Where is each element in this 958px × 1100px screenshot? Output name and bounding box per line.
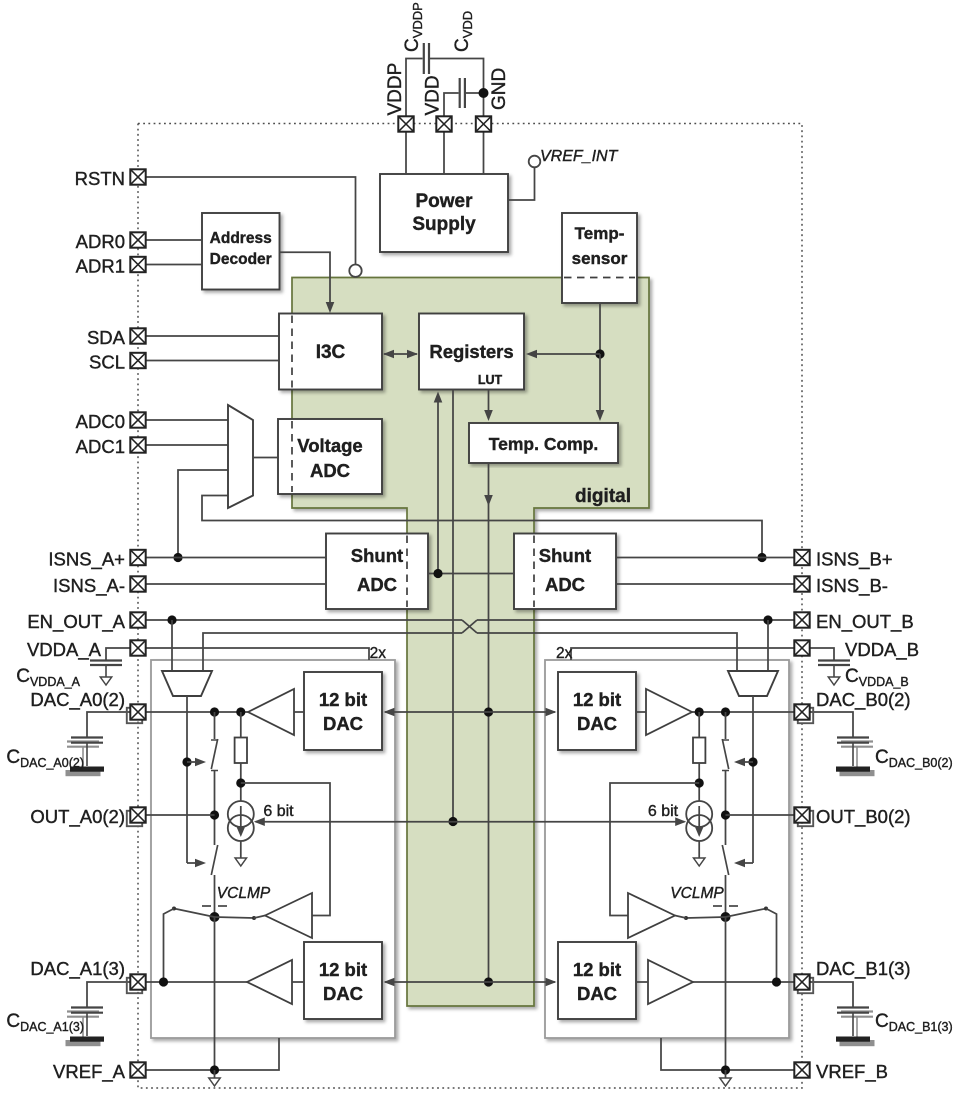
svg-text:EN_OUT_A: EN_OUT_A: [27, 611, 125, 633]
ground current source A: [235, 858, 246, 866]
wire mux tap ISNS_B+: [202, 496, 762, 558]
wire OUT_B0 line: [726, 814, 795, 816]
wire OUT_A0 line: [146, 814, 215, 816]
label SDA: [87, 327, 126, 348]
label 12 bit DAC A0: [319, 689, 367, 734]
wire EN_A to trap A: [171, 620, 173, 671]
junction DAC_A1 clamp: [159, 977, 168, 986]
wire SCL to I3C: [146, 360, 279, 362]
digital boundary dashes in Shunt ADC B: [533, 536, 535, 608]
wire EN crossover X: [462, 620, 477, 633]
label OUT_A0(2): [30, 806, 125, 828]
junction rail B: [748, 757, 757, 766]
node RSTN domain circle: [349, 265, 361, 277]
svg-text:VREF_B: VREF_B: [816, 1061, 888, 1083]
wire VDDA_A decoupling tap: [106, 648, 130, 660]
svg-text:OUT_B0(2): OUT_B0(2): [816, 806, 911, 828]
svg-text:Temp. Comp.: Temp. Comp.: [489, 434, 599, 454]
label Shunt ADC B: [539, 545, 591, 595]
label C_VDDP: [402, 2, 425, 52]
label DAC_B0(2): [816, 689, 911, 711]
junction GND/CVDD: [479, 88, 489, 98]
svg-text:12 bit: 12 bit: [319, 689, 367, 710]
label VREF_B: [816, 1061, 888, 1083]
label SCL: [89, 352, 125, 373]
svg-text:VDDA_B: VDDA_B: [845, 639, 919, 661]
label VCLMP A: [217, 885, 271, 902]
pad VREF_A: [130, 1062, 145, 1077]
svg-text:LUT: LUT: [478, 373, 503, 387]
wire VREF_A: [146, 1038, 279, 1070]
wire SDA to I3C: [146, 335, 279, 337]
junction DAC_A0 switch: [210, 707, 219, 716]
wire clamp to DAC1 A: [164, 909, 175, 983]
svg-text:Supply: Supply: [412, 214, 476, 235]
svg-text:Voltage: Voltage: [297, 435, 362, 456]
terminal VREF_INT: [529, 156, 541, 168]
junction res node A: [236, 778, 245, 787]
junction DAC0 bus: [484, 707, 493, 716]
wire buffer B0 to DAC box: [636, 711, 646, 713]
svg-text:ADR1: ADR1: [76, 256, 125, 277]
pad RSTN: [130, 169, 145, 184]
label ISNS_B+: [816, 549, 893, 571]
wire VDD pad to Power Supply: [443, 132, 445, 175]
wire chain top B: [725, 712, 727, 739]
svg-text:Registers: Registers: [429, 341, 513, 362]
wire ISNS_A+: [146, 557, 326, 559]
svg-text:DAC_A1(3): DAC_A1(3): [30, 958, 125, 980]
svg-text:SDA: SDA: [87, 327, 126, 348]
svg-text:I3C: I3C: [316, 342, 346, 363]
label VDDA_A: [27, 639, 102, 661]
label ADC1: [76, 436, 125, 457]
label LUT: [478, 373, 503, 387]
capacitor C_DAC_A0 echo: [66, 742, 100, 776]
svg-text:ISNS_B+: ISNS_B+: [816, 549, 893, 571]
svg-text:6 bit: 6 bit: [263, 803, 294, 820]
svg-text:12 bit: 12 bit: [573, 689, 621, 710]
Power Supply block: [380, 174, 508, 252]
label DAC_A0(2): [30, 689, 125, 711]
pad GND: [476, 116, 491, 131]
junction DAC_B0 switch: [721, 707, 730, 716]
wire mux tap ISNS_A+: [178, 470, 228, 558]
capacitor C_DAC_A1: [70, 1008, 104, 1042]
wire rail arrow 1 B: [734, 758, 753, 767]
wire VREF_INT to Power Supply: [508, 168, 535, 201]
wire res bottom A: [240, 763, 242, 802]
switch clamp pole B: [721, 912, 731, 922]
wire chain low A: [214, 875, 216, 917]
label 6 bit B: [648, 803, 679, 820]
svg-text:Power: Power: [415, 191, 473, 212]
pad ADC0: [130, 412, 145, 427]
label GND: [489, 68, 510, 110]
wire VDDP pad to Power Supply: [405, 132, 407, 175]
capacitor C_VDDA_A: [90, 661, 122, 678]
wire chain mid A: [214, 771, 216, 846]
junction DAC_B1 clamp: [772, 977, 781, 986]
svg-text:ADC0: ADC0: [76, 411, 125, 432]
switch blade 2 B: [722, 845, 728, 875]
wire chain top A: [214, 712, 216, 739]
wire VREF gnd stub A: [214, 1070, 216, 1078]
wire C_VDD to GND junction: [466, 92, 484, 94]
wire buffer A1 to DAC box: [292, 981, 304, 983]
junction ISNS_B+ tap: [757, 553, 766, 562]
label RSTN: [75, 168, 125, 189]
switch clamp pole A: [210, 912, 220, 922]
label ISNS_A+: [48, 549, 125, 571]
wire C_VDDP to GND net: [430, 59, 484, 117]
label Temp-sensor: [572, 224, 628, 268]
Address Decoder block: [202, 213, 280, 290]
label Temp. Comp.: [489, 434, 599, 454]
svg-text:ISNS_A+: ISNS_A+: [48, 549, 125, 571]
capacitor C_VDDP: [424, 43, 429, 74]
wire VREF gnd stub B: [725, 1070, 727, 1078]
12 bit DAC block A0: [304, 672, 382, 750]
svg-text:DAC_B1(3): DAC_B1(3): [816, 958, 911, 980]
svg-text:CVDDP: CVDDP: [402, 2, 425, 52]
wire chain bottom B: [725, 917, 727, 1070]
wire trap B rail: [752, 696, 754, 863]
svg-text:Decoder: Decoder: [210, 251, 272, 268]
pad ADR1: [130, 257, 145, 272]
output stage block B (2x): [545, 660, 789, 1038]
pad VDD: [436, 116, 451, 131]
wire I3C-Registers bidirectional: [383, 350, 418, 359]
label Power Supply: [412, 191, 476, 235]
switch clamp contact bars B: [713, 905, 738, 907]
pad DAC_B0(2): [794, 704, 813, 723]
junction rail A: [182, 757, 191, 766]
ground VREF_B: [720, 1078, 731, 1086]
label C_VDDA_B: [845, 666, 909, 689]
label VREF_A: [53, 1061, 126, 1083]
wire RSTN: [146, 177, 356, 264]
label C_DAC_B1: [875, 1011, 953, 1034]
wire temp to Temp. Comp.: [596, 354, 605, 421]
wire chain low B: [725, 875, 727, 917]
svg-text:DAC_A0(2): DAC_A0(2): [30, 689, 125, 711]
pad DAC_A1(3): [127, 974, 146, 993]
wire shunt ADC output row: [428, 573, 514, 575]
junction res node B: [695, 778, 704, 787]
svg-text:OUT_A0(2): OUT_A0(2): [30, 806, 125, 828]
label C_DAC_B0: [875, 747, 953, 770]
wire current source gnd lead B: [698, 841, 700, 858]
digital boundary dashes in Voltage ADC: [291, 421, 293, 492]
wire ISNS_A-: [146, 583, 326, 585]
wire GND pad to Power Supply: [483, 132, 485, 175]
svg-text:12 bit: 12 bit: [319, 959, 367, 980]
svg-text:ADC: ADC: [545, 574, 585, 595]
pad ISNS_A-: [130, 576, 145, 591]
ground C_VDDA_A: [100, 677, 111, 685]
wire DAC_B0 cap tap: [810, 712, 853, 738]
wire DAC_A0 cap tap: [87, 712, 130, 738]
label EN_OUT_B: [816, 611, 914, 633]
label VCLMP B: [670, 885, 724, 902]
mux ADC input selector: [228, 405, 253, 508]
svg-text:CDAC_A0(2): CDAC_A0(2): [6, 747, 84, 770]
svg-text:ADC: ADC: [310, 460, 350, 481]
chip boundary (dotted): [138, 124, 802, 1089]
svg-text:RSTN: RSTN: [75, 168, 125, 189]
wire DAC_A1 line: [146, 981, 247, 983]
label OUT_B0(2): [816, 806, 911, 828]
pad ADR0: [130, 232, 145, 247]
svg-text:DAC: DAC: [577, 713, 617, 734]
switch clamp blade left A: [172, 907, 215, 918]
12 bit DAC block A1: [304, 942, 382, 1019]
pad OUT_A0(2): [127, 807, 146, 826]
switch clamp blade right B: [684, 916, 726, 920]
label C_DAC_A0: [6, 747, 84, 770]
pad ISNS_B+: [794, 550, 809, 565]
buffer amp B1: [648, 960, 693, 1004]
svg-text:EN_OUT_B: EN_OUT_B: [816, 611, 914, 633]
label VDDA_B: [845, 639, 919, 661]
pad SDA: [130, 328, 145, 343]
pad OUT_B0(2): [794, 807, 813, 826]
label 2x A: [370, 645, 387, 662]
resistor B: [693, 738, 705, 764]
pad SCL: [130, 353, 145, 368]
label 12 bit DAC B1: [573, 959, 621, 1004]
label ISNS_A-: [53, 575, 125, 597]
wire DAC_A0 line: [146, 711, 248, 713]
wire res bottom B: [698, 763, 700, 802]
wire shunt data bus up to Registers: [434, 392, 443, 574]
pad VDDP: [398, 116, 413, 131]
bus DAC0 12bit: [384, 708, 557, 717]
svg-text:CDAC_B1(3): CDAC_B1(3): [875, 1011, 953, 1034]
wire Temp. Comp. output bus: [484, 463, 493, 982]
wire EN_A crossed to trap B: [477, 633, 737, 671]
pad ADC1: [130, 437, 145, 452]
svg-text:DAC: DAC: [323, 713, 363, 734]
svg-text:VCLMP: VCLMP: [670, 885, 724, 902]
label DAC_A1(3): [30, 958, 125, 980]
capacitor C_DAC_B0 echo: [840, 742, 874, 776]
capacitor C_DAC_B1 echo: [840, 1012, 874, 1046]
wire ADC0 to mux: [146, 419, 228, 421]
wire DAC_B1 cap tap: [810, 982, 853, 1008]
svg-text:CDAC_B0(2): CDAC_B0(2): [875, 747, 953, 770]
capacitor C_DAC_A1 echo: [66, 1012, 100, 1046]
wire VREF_B: [661, 1038, 794, 1070]
wire current source gnd lead A: [240, 841, 242, 858]
label Shunt ADC A: [351, 545, 403, 595]
junction DAC_B0 res: [695, 707, 704, 716]
capacitor C_VDDA_B: [818, 661, 850, 678]
label VDDP: [385, 63, 406, 116]
current source B (6 bit): [686, 801, 712, 841]
svg-text:ADC1: ADC1: [76, 436, 125, 457]
svg-text:VCLMP: VCLMP: [217, 885, 271, 902]
wire Address Decoder to I3C: [280, 252, 335, 313]
wire trap A rail: [186, 696, 188, 863]
pad ISNS_B-: [794, 576, 809, 591]
label C_VDD: [452, 11, 475, 52]
svg-text:CVDDA_A: CVDDA_A: [16, 666, 80, 689]
label 2x B: [556, 645, 573, 662]
pad DAC_A0(2): [127, 704, 146, 723]
wire temp to Registers: [526, 350, 600, 359]
wire DAC_B1 line: [693, 981, 794, 983]
output driver trap A: [162, 671, 212, 696]
switch clamp blade right A: [215, 916, 257, 920]
capacitor C_DAC_A0: [70, 738, 104, 772]
label Registers: [429, 341, 513, 362]
svg-text:ISNS_B-: ISNS_B-: [816, 575, 888, 597]
wire mux to Voltage ADC: [253, 457, 278, 459]
wire clamp to DAC1 B: [766, 909, 777, 983]
pad VREF_B: [794, 1062, 809, 1077]
wire ISNS_B+: [616, 557, 794, 559]
junction EN_OUT_B: [763, 615, 772, 624]
wire Temp-sensor output: [599, 303, 601, 354]
digital boundary dashes in Shunt ADC A: [406, 536, 408, 608]
wire EN_OUT_A west: [146, 619, 462, 621]
wire clamp feedback A: [241, 783, 330, 916]
label DAC_B1(3): [816, 958, 911, 980]
junction OUT_A0 node: [210, 810, 219, 819]
Temp. Comp. block: [469, 423, 618, 463]
label C_DAC_A1: [6, 1011, 84, 1034]
label Address Decoder: [210, 230, 272, 268]
label ISNS_B-: [816, 575, 888, 597]
Voltage ADC block: [278, 419, 382, 494]
junction VREF_A: [210, 1065, 219, 1074]
ground VREF_A: [209, 1078, 220, 1086]
svg-text:DAC: DAC: [577, 983, 617, 1004]
wire rail arrow 1 A: [187, 758, 206, 767]
label ADC0: [76, 411, 125, 432]
comparator VCLMP B: [628, 893, 675, 938]
svg-text:2x: 2x: [370, 645, 387, 662]
label 6 bit A: [263, 803, 294, 820]
wire rail arrow 2 A: [187, 859, 206, 868]
pad VDDA_A: [130, 640, 145, 655]
wire VDDA_A to block: [146, 648, 369, 660]
label ADR0: [76, 231, 125, 252]
svg-text:CVDDA_B: CVDDA_B: [845, 666, 909, 689]
junction 6bit bus: [448, 817, 457, 826]
switch blade 1 A: [211, 739, 218, 771]
comparator VCLMP A: [265, 893, 312, 938]
svg-text:VREF_A: VREF_A: [53, 1061, 126, 1083]
capacitor C_DAC_B0: [836, 738, 870, 772]
label C_VDDA_A: [16, 666, 80, 689]
ground current source B: [694, 858, 705, 866]
output stage block A (2x): [151, 660, 395, 1038]
bus DAC1 12bit: [384, 978, 557, 987]
svg-text:Address: Address: [210, 230, 272, 247]
wire ADR0 to Address Decoder: [146, 239, 202, 241]
switch clamp contact bars A: [202, 905, 227, 907]
switch blade 2 A: [211, 845, 217, 875]
svg-text:Temp-: Temp-: [575, 224, 625, 243]
wire res top A: [240, 712, 242, 738]
digital domain region: [292, 278, 649, 1007]
ground C_VDDA_B: [828, 677, 839, 685]
buffer amp A0: [248, 689, 294, 735]
Registers block: [419, 314, 524, 390]
wire buffer A0 to DAC box: [294, 711, 304, 713]
svg-text:VDDP: VDDP: [385, 63, 406, 116]
12 bit DAC block B0: [558, 672, 636, 750]
label EN_OUT_A: [27, 611, 125, 633]
svg-text:GND: GND: [489, 68, 510, 110]
output driver trap B: [728, 671, 778, 696]
svg-text:Shunt: Shunt: [351, 545, 403, 566]
junction ISNS_A+ tap: [173, 553, 182, 562]
wire chain bottom A: [214, 917, 216, 1070]
junction DAC1 bus: [484, 977, 493, 986]
wire VDDP to C_VDDP: [406, 59, 423, 117]
svg-text:DAC: DAC: [323, 983, 363, 1004]
label 12 bit DAC B0: [573, 689, 621, 734]
svg-text:sensor: sensor: [572, 249, 628, 268]
svg-text:DAC_B0(2): DAC_B0(2): [816, 689, 911, 711]
buffer amp A1: [247, 960, 292, 1004]
label ADR1: [76, 256, 125, 277]
label Voltage ADC: [297, 435, 362, 481]
wire EN_OUT_B east: [477, 619, 794, 621]
wire Registers down-bus: [452, 390, 454, 822]
svg-text:6 bit: 6 bit: [648, 803, 679, 820]
wire clamp to comparator B: [675, 916, 686, 919]
svg-text:12 bit: 12 bit: [573, 959, 621, 980]
switch clamp blade left B: [726, 907, 769, 918]
pad DAC_B1(3): [794, 974, 813, 993]
wire ISNS_B-: [616, 583, 794, 585]
buffer amp B0: [646, 689, 692, 735]
label VREF_INT: [540, 148, 619, 165]
switch blade 1 B: [722, 739, 729, 771]
junction EN_OUT_A: [167, 615, 176, 624]
wire ADC1 to mux: [146, 444, 228, 446]
wire VDD to C_VDD: [444, 93, 459, 117]
capacitor C_VDD: [460, 78, 465, 108]
svg-text:digital: digital: [575, 486, 631, 507]
current source A (6 bit): [228, 801, 254, 841]
Temp-sensor block: [562, 213, 637, 303]
wire EN_B to trap B: [767, 620, 769, 671]
svg-text:ADR0: ADR0: [76, 231, 125, 252]
label 12 bit DAC A1: [319, 959, 367, 1004]
wire buffer B1 to DAC box: [636, 981, 648, 983]
wire DAC_B0 line: [692, 711, 794, 713]
wire res top B: [698, 712, 700, 738]
wire VDDA_B decoupling tap: [810, 648, 834, 660]
junction DAC_A0 res: [236, 707, 245, 716]
svg-text:ISNS_A-: ISNS_A-: [53, 575, 125, 597]
svg-text:CVDD: CVDD: [452, 11, 475, 52]
wire Registers to Temp. Comp.: [484, 390, 493, 422]
Shunt ADC block B: [514, 534, 616, 610]
12 bit DAC block B1: [558, 942, 636, 1019]
svg-text:CDAC_A1(3): CDAC_A1(3): [6, 1011, 84, 1034]
digital boundary dashes in Temp-sensor: [564, 277, 635, 279]
wire rail arrow 2 B: [734, 859, 753, 868]
I3C block: [279, 314, 382, 390]
wire ADR1 to Address Decoder: [146, 264, 202, 266]
